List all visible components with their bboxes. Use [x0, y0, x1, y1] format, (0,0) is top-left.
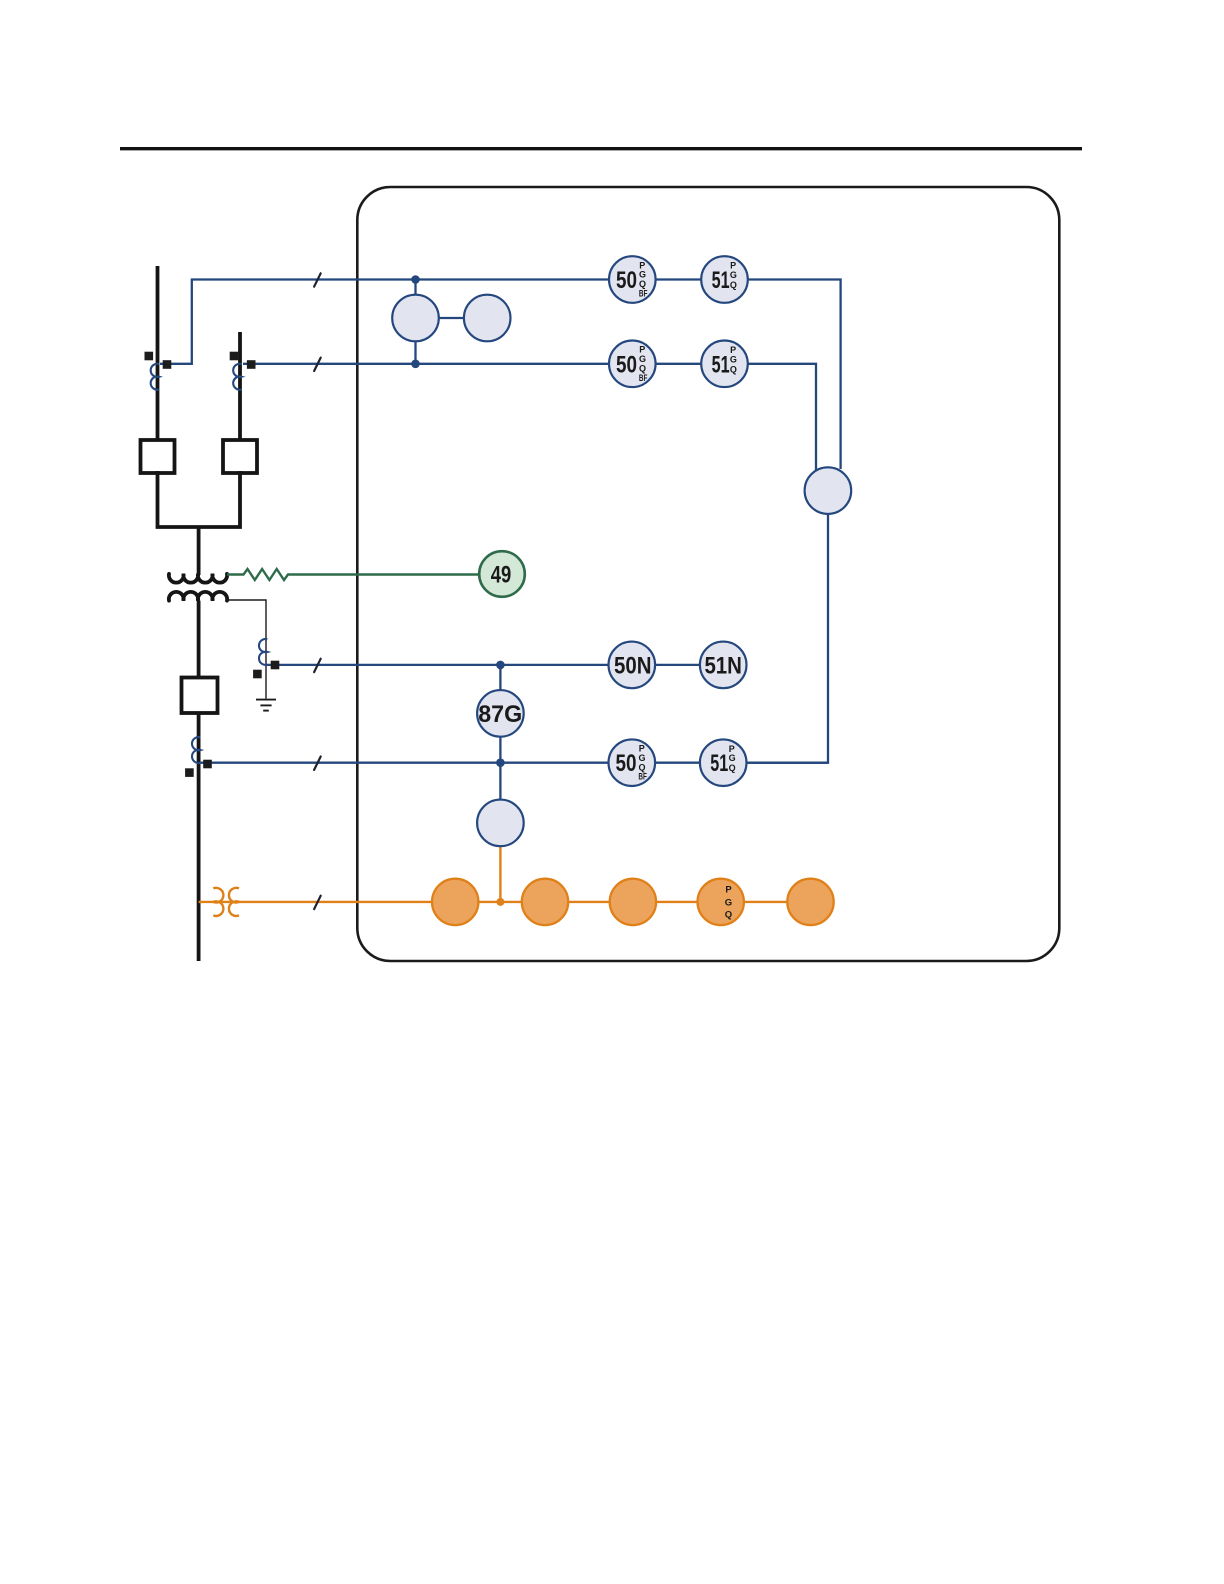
svg-text:G: G — [639, 270, 646, 280]
svg-text:G: G — [730, 354, 737, 364]
svg-text:Q: Q — [729, 763, 736, 773]
svg-text:P: P — [725, 884, 732, 895]
svg-text:BF: BF — [639, 373, 648, 383]
svg-text:G: G — [729, 753, 736, 763]
svg-text:51: 51 — [712, 267, 730, 294]
svg-text:50N: 50N — [614, 652, 652, 679]
svg-text:50: 50 — [616, 351, 637, 378]
svg-text:G: G — [639, 354, 646, 364]
svg-text:Q: Q — [730, 364, 737, 374]
svg-text:G: G — [725, 898, 732, 909]
svg-text:Q: Q — [730, 280, 737, 290]
svg-text:50: 50 — [616, 750, 637, 777]
svg-text:50: 50 — [616, 267, 637, 294]
svg-text:G: G — [730, 270, 737, 280]
svg-text:G: G — [638, 753, 645, 763]
svg-text:51N: 51N — [704, 652, 742, 679]
svg-text:BF: BF — [638, 772, 647, 782]
svg-text:49: 49 — [491, 562, 512, 589]
svg-text:Q: Q — [725, 910, 732, 921]
svg-text:51: 51 — [710, 750, 728, 777]
svg-text:51: 51 — [712, 351, 730, 378]
svg-text:BF: BF — [639, 289, 648, 299]
svg-text:87G: 87G — [478, 701, 522, 728]
